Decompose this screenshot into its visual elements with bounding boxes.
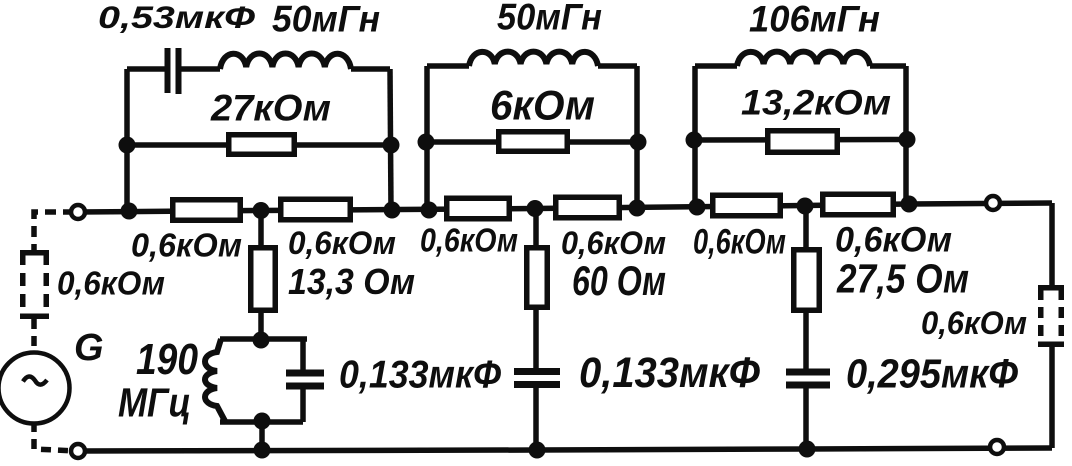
- svg-text:60 Ом: 60 Ом: [572, 257, 666, 304]
- inductor L1 50мГн: [220, 54, 351, 70]
- wire branch2 below cap: [533, 387, 539, 450]
- svg-text:0,6кОм: 0,6кОм: [288, 224, 396, 261]
- svg-text:6кОм: 6кОм: [490, 82, 595, 129]
- node bottom rail branch3: [799, 441, 816, 458]
- wire dashed source mid lead: [31, 319, 37, 352]
- capacitor C 0,53мкФ plates: [165, 48, 171, 93]
- wire section3 top branch right: [870, 63, 906, 69]
- node section3 rail left: [689, 199, 706, 216]
- wire section2 top branch left: [427, 63, 469, 69]
- node section1 rail mid: [253, 202, 270, 219]
- wire section3 top branch left: [695, 63, 737, 69]
- terminal output bottom: [990, 440, 1004, 454]
- wire section2 left vertical: [424, 66, 430, 210]
- inductor tank 190МГц coil: [205, 339, 225, 421]
- svg-text:13,3 Ом: 13,3 Ом: [288, 261, 415, 302]
- wire right vertical (top corner to bottom corner): [1049, 203, 1055, 448]
- node section3 rail right: [901, 196, 918, 213]
- svg-text:13,2кОм: 13,2кОм: [741, 84, 891, 123]
- generator sine symbol: [23, 376, 47, 384]
- node section2 mid-row left: [418, 134, 435, 151]
- resistor 0,6кОм series 2a: [447, 198, 510, 219]
- wire section2 right vertical: [634, 66, 640, 209]
- node section3 mid-row right: [899, 131, 916, 148]
- resistor 27кОм: [229, 135, 295, 155]
- resistor 0,6кОм series 2b: [556, 197, 620, 218]
- resistor 0,6кОм series 1a: [173, 200, 241, 221]
- node bottom rail branch2: [529, 442, 546, 459]
- wire section1 top branch mid: [181, 66, 220, 72]
- svg-text:0,6кОм: 0,6кОм: [57, 265, 165, 303]
- wire section1 left vertical: [124, 69, 130, 212]
- svg-text:0,295мкФ: 0,295мкФ: [846, 350, 1018, 396]
- resistor source 0,6кОм (dashed box): [20, 252, 49, 317]
- svg-text:0,6кОм: 0,6кОм: [561, 224, 666, 261]
- wire section2 top branch right: [598, 63, 637, 69]
- svg-text:106мГн: 106мГн: [749, 0, 880, 40]
- wire section1 right vertical: [390, 69, 391, 210]
- svg-text:190: 190: [136, 335, 198, 384]
- terminal input top: [71, 205, 85, 219]
- terminal output top: [986, 196, 1000, 210]
- inductor L2 50мГн: [469, 52, 598, 66]
- inductor L3 106мГн: [737, 52, 870, 66]
- resistor 0,6кОм series 1b: [281, 199, 351, 220]
- node section2 rail mid: [527, 200, 544, 217]
- wire section3 left vertical: [692, 66, 698, 208]
- svg-text:27,5 Ом: 27,5 Ом: [836, 255, 969, 301]
- resistor 60Ом: [527, 248, 548, 308]
- resistor 13,2кОм: [768, 131, 838, 153]
- node section1 mid-row left: [119, 137, 136, 154]
- wire section3 middle row: [695, 137, 906, 143]
- wire section1 top branch left: [127, 66, 165, 72]
- svg-text:27кОм: 27кОм: [210, 87, 331, 129]
- node section3 mid-row left: [686, 132, 703, 149]
- svg-text:0,6кОм: 0,6кОм: [921, 304, 1027, 341]
- svg-text:0,133мкФ: 0,133мкФ: [579, 349, 761, 397]
- resistor 6кОм: [499, 132, 568, 152]
- resistor 0,6кОм series 3a: [713, 195, 781, 216]
- wire dashed source top lead: [34, 212, 74, 251]
- wire branch3 below cap: [803, 388, 809, 449]
- node section1 rail left: [121, 203, 138, 220]
- wire section1 top branch right: [351, 66, 390, 72]
- resistor 13,3Ом: [251, 248, 276, 311]
- wire branch2 vertical: [533, 209, 539, 370]
- wire dashed source bottom lead: [34, 422, 76, 451]
- capacitor tank 0,133мкФ plates: [286, 370, 324, 377]
- svg-text:0,6кОм: 0,6кОм: [131, 227, 242, 265]
- wire section2 middle row: [427, 139, 637, 145]
- wire tank right side bottom: [300, 389, 306, 422]
- node section1 rail right: [384, 202, 401, 219]
- wire tank top line: [220, 336, 307, 342]
- wire bottom rail: [78, 448, 1052, 451]
- wire branch1 vertical: [258, 211, 264, 340]
- wire tank right side top: [300, 339, 306, 370]
- resistor load 0,6кОм (dashed box): [1038, 288, 1064, 345]
- wire top rail: [78, 203, 1052, 212]
- capacitor 0,133мкФ plates: [514, 368, 560, 375]
- wire branch3 vertical: [803, 206, 809, 371]
- svg-text:50мГн: 50мГн: [272, 0, 380, 40]
- svg-text:МГц: МГц: [118, 379, 191, 425]
- wire section3 right vertical: [903, 66, 909, 205]
- svg-text:0,6кОм: 0,6кОм: [420, 222, 518, 260]
- wire section1 middle row: [127, 142, 390, 148]
- svg-text:G: G: [74, 327, 104, 369]
- terminal input bottom: [71, 444, 85, 458]
- capacitor 0,295мкФ plates: [786, 369, 830, 376]
- generator G circle: [0, 353, 70, 424]
- node section1 mid-row right: [383, 137, 400, 154]
- node tank bottom: [254, 413, 271, 430]
- node section3 rail mid: [797, 198, 814, 215]
- svg-text:0,6кОм: 0,6кОм: [693, 222, 786, 261]
- node bottom rail branch1: [254, 442, 271, 459]
- wire tank bottom line: [220, 419, 303, 425]
- wire tank bottom to rail: [259, 422, 265, 450]
- node section2 rail right: [629, 200, 646, 217]
- node section2 rail left: [421, 202, 438, 219]
- resistor 27,5Ом: [794, 250, 820, 311]
- svg-text:0,133мкФ: 0,133мкФ: [339, 353, 501, 397]
- node tank top: [253, 332, 270, 349]
- resistor 0,6кОм series 3b: [823, 194, 894, 215]
- svg-text:0,6кОм: 0,6кОм: [835, 220, 952, 259]
- node section2 mid-row right: [630, 134, 647, 151]
- svg-text:50мГн: 50мГн: [497, 0, 602, 38]
- svg-text:0,53мкФ: 0,53мкФ: [98, 0, 256, 35]
